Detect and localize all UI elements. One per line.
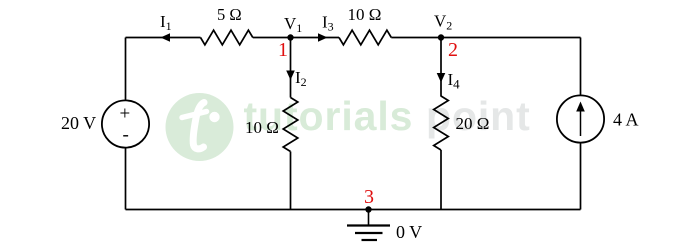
node 3 junction: [365, 206, 371, 212]
node V2: [438, 34, 444, 40]
wire bottom: [126, 209, 581, 211]
wire right lower: [580, 144, 582, 210]
node V1: [287, 34, 293, 40]
ground: [347, 210, 390, 241]
svg-text:10 Ω: 10 Ω: [348, 5, 382, 24]
svg-text:-: -: [123, 125, 129, 146]
arrow I2: [286, 71, 295, 81]
wire V1 branch upper: [290, 38, 292, 98]
arrow I3: [318, 33, 328, 42]
svg-text:V2: V2: [434, 12, 452, 33]
resistor R 5ohm: [201, 30, 253, 45]
svg-text:2: 2: [448, 39, 458, 61]
wire right upper: [580, 38, 582, 95]
svg-text:5 Ω: 5 Ω: [217, 5, 242, 24]
svg-text:4 A: 4 A: [613, 110, 639, 130]
svg-text:I4: I4: [448, 70, 461, 92]
svg-text:V1: V1: [284, 14, 302, 35]
svg-text:10 Ω: 10 Ω: [245, 118, 279, 137]
wire top-middle segment: [253, 37, 339, 39]
svg-text:I3: I3: [322, 13, 334, 34]
wire left upper: [125, 38, 127, 100]
svg-text:I2: I2: [295, 68, 307, 89]
wire top-right segment: [391, 37, 580, 39]
svg-text:20 V: 20 V: [61, 113, 96, 133]
voltage source VS 20V: [102, 100, 149, 147]
resistor R 10ohm horizontal: [339, 30, 391, 45]
resistor R 10ohm vertical: [283, 98, 298, 152]
svg-text:+: +: [120, 104, 131, 125]
wire V2 branch lower: [440, 150, 442, 210]
svg-text:20 Ω: 20 Ω: [456, 114, 490, 133]
wire V1 branch lower: [290, 152, 292, 210]
current source IS 4A: [557, 95, 604, 142]
wire top-left segment: [126, 37, 201, 39]
resistor R 20ohm vertical: [434, 96, 449, 150]
svg-text:3: 3: [364, 186, 374, 208]
svg-text:0 V: 0 V: [396, 222, 422, 242]
wire V2 branch upper: [440, 38, 442, 97]
arrow I4: [437, 73, 446, 83]
arrow I1: [161, 33, 171, 42]
wire left lower: [125, 148, 127, 209]
svg-text:I1: I1: [160, 12, 172, 33]
svg-text:1: 1: [278, 39, 288, 61]
